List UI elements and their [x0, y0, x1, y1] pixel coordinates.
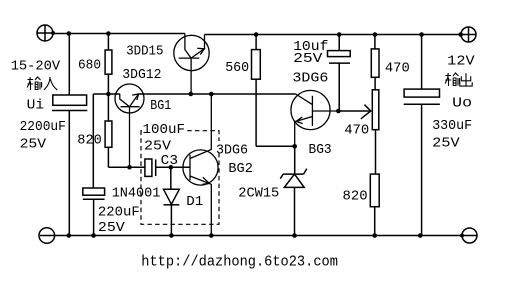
terminal input minus — [39, 228, 55, 244]
svg-text:3DG12: 3DG12 — [122, 67, 161, 83]
svg-text:25V: 25V — [98, 220, 125, 236]
svg-text:2CW15: 2CW15 — [238, 186, 279, 202]
capacitor 330uF — [404, 35, 440, 236]
svg-text:12V: 12V — [447, 53, 475, 69]
svg-text:http://dazhong.6to23.com: http://dazhong.6to23.com — [141, 254, 338, 271]
svg-text:330uF: 330uF — [432, 118, 472, 134]
wire top bus left — [53, 33, 185, 35]
terminal output plus — [461, 27, 476, 42]
resistor R 820 right — [370, 174, 379, 235]
svg-text:680: 680 — [78, 57, 101, 73]
svg-text:1N4001: 1N4001 — [112, 185, 161, 201]
transistor BG1 3DG12 — [115, 84, 144, 167]
wire top bus right — [205, 34, 462, 36]
capacitor 220uF — [83, 188, 105, 236]
wire pot wiper arrow — [338, 105, 370, 119]
svg-text:100uF: 100uF — [143, 122, 186, 138]
potentiometer R 470 — [372, 90, 379, 174]
wire bottom bus — [54, 235, 462, 237]
svg-text:25V: 25V — [432, 136, 460, 152]
svg-text:220uF: 220uF — [98, 205, 140, 221]
svg-text:3DG6: 3DG6 — [216, 143, 248, 159]
diode D1 1N4001 — [164, 167, 180, 235]
capacitor 2200uF — [52, 95, 87, 111]
svg-text:470: 470 — [344, 122, 369, 138]
resistor R 560 — [252, 35, 261, 147]
wire left vertical input — [68, 34, 70, 96]
svg-text:560: 560 — [225, 60, 249, 76]
dashed box — [141, 131, 219, 225]
svg-text:25V: 25V — [293, 51, 323, 67]
svg-text:BG2: BG2 — [228, 161, 253, 177]
transistor BG3 3DG6 — [291, 90, 339, 146]
svg-text:820: 820 — [343, 189, 368, 205]
label shu-chu (Chinese output) — [445, 73, 472, 86]
resistor R 680 — [105, 34, 112, 95]
transistor 3DD15 — [174, 34, 209, 95]
wire mid horizontal right of BG1 — [139, 93, 296, 95]
wire mid horizontal left segment — [93, 93, 120, 95]
svg-text:D1: D1 — [186, 194, 203, 210]
svg-text:BG3: BG3 — [309, 142, 332, 158]
resistor R 470 top — [371, 35, 379, 90]
zener diode 2CW15 — [280, 146, 307, 235]
terminal output minus — [462, 228, 477, 243]
svg-text:C3: C3 — [161, 153, 178, 169]
svg-text:25V: 25V — [20, 137, 47, 153]
capacitor C3 100uF — [145, 159, 190, 176]
svg-text:Uo: Uo — [452, 96, 472, 112]
svg-text:BG1: BG1 — [150, 98, 171, 114]
wire 220uF top lead — [92, 94, 94, 188]
wire to C3 — [108, 166, 144, 168]
terminal input plus — [37, 25, 53, 42]
svg-text:820: 820 — [77, 133, 102, 149]
wire left vertical below cap — [68, 111, 70, 236]
svg-text:3DD15: 3DD15 — [126, 43, 163, 59]
svg-text:Ui: Ui — [27, 98, 45, 114]
transistor BG2 3DG6 — [183, 94, 218, 236]
text background patches — [142, 122, 249, 153]
resistor R 820 left — [105, 94, 112, 167]
svg-text:470: 470 — [385, 61, 410, 77]
wire 560 to zener node — [256, 145, 295, 147]
svg-text:3DG6: 3DG6 — [292, 70, 328, 86]
capacitor 10uF — [328, 35, 351, 112]
svg-text:15-20V: 15-20V — [11, 59, 61, 75]
label shu-ru (Chinese input) — [27, 77, 57, 90]
svg-text:2200uF: 2200uF — [20, 119, 66, 135]
